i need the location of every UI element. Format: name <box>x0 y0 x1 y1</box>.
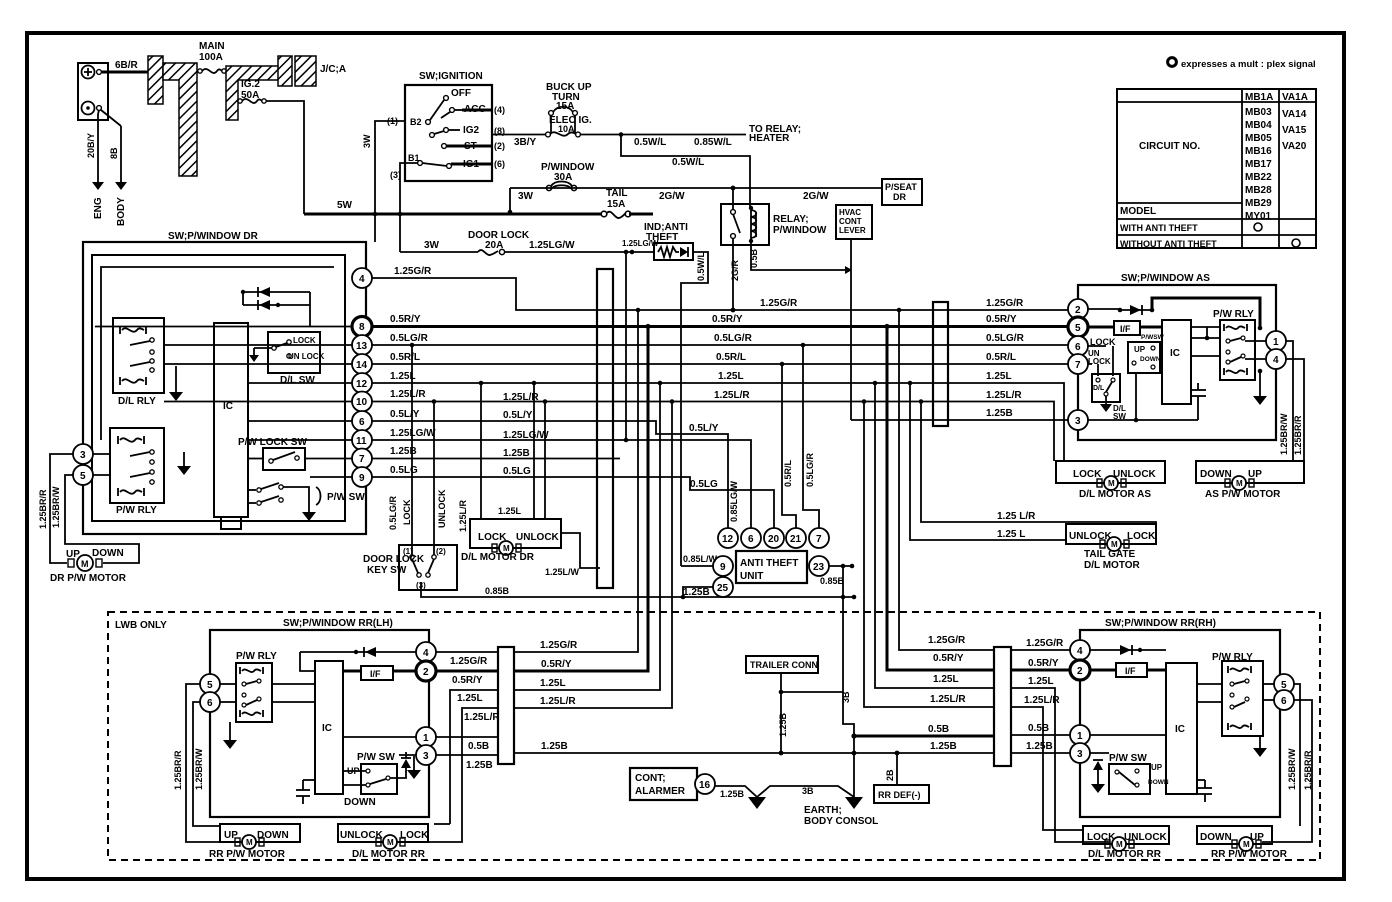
IG1 contact and B1 <box>418 161 423 166</box>
wire trailer 1.25B drop <box>780 673 782 753</box>
svg-text:UNLOCK: UNLOCK <box>340 830 384 841</box>
switch D/L SW <box>249 332 325 386</box>
motor RR P/W MOTOR (LH) <box>209 824 300 860</box>
svg-text:THEFT: THEFT <box>646 232 678 243</box>
svg-text:4: 4 <box>359 274 365 285</box>
P/W RLY LH <box>236 651 277 722</box>
wires to key switch <box>411 345 413 555</box>
fusible link block A (hatched) <box>148 56 163 104</box>
motor D/L MOTOR RR (RH) <box>1083 826 1169 860</box>
svg-text:DOWN: DOWN <box>92 548 124 559</box>
svg-text:1.25 L/R: 1.25 L/R <box>997 511 1036 522</box>
motor RR P/W MOTOR (RH) <box>1197 826 1288 860</box>
svg-text:1.25L/R: 1.25L/R <box>540 696 576 707</box>
wire RR P/W motor from LH pin6 <box>193 702 220 826</box>
svg-text:SW;P/WINDOW AS: SW;P/WINDOW AS <box>1121 273 1210 284</box>
fuse ELEC IG. 10A <box>546 115 592 137</box>
RH bus to pins wires <box>1011 649 1070 651</box>
svg-text:IC: IC <box>1170 348 1180 359</box>
svg-text:0.5W/L: 0.5W/L <box>634 137 666 148</box>
svg-text:DOWN: DOWN <box>344 797 376 808</box>
ST contact <box>442 144 447 149</box>
diode feed from pin2 <box>1088 309 1120 310</box>
svg-text:1.25L/R: 1.25L/R <box>390 389 426 400</box>
svg-text:5: 5 <box>207 680 213 691</box>
fusible link block B L-shape (hatched) <box>163 63 197 176</box>
wire RH pin6 to motor <box>1262 700 1312 842</box>
I/F LH <box>361 666 393 680</box>
svg-text:0.5W/L: 0.5W/L <box>672 157 704 168</box>
svg-text:1.25B: 1.25B <box>541 741 568 752</box>
IC LH <box>315 661 343 794</box>
svg-text:0.5LG: 0.5LG <box>390 465 418 476</box>
svg-text:1.25G/R: 1.25G/R <box>540 640 578 651</box>
drop tail gate 1.25L <box>910 383 1066 540</box>
svg-text:0.5B: 0.5B <box>749 248 759 268</box>
svg-text:0.5R/Y: 0.5R/Y <box>452 675 483 686</box>
wire 1.25BR/R from AS pin4 <box>1286 359 1304 461</box>
capacitor LH <box>302 780 304 790</box>
drop 1.25G/R to RR(RH) <box>899 310 994 650</box>
wire DR motor UP from pin 3 <box>50 454 73 563</box>
svg-text:P/W SW: P/W SW <box>1109 753 1147 764</box>
AS pins right <box>1266 331 1286 351</box>
svg-text:TAIL: TAIL <box>606 188 627 199</box>
svg-text:0.5LG/R: 0.5LG/R <box>805 452 815 487</box>
box HVAC CONT LEVER <box>836 205 872 239</box>
svg-text:0.5B: 0.5B <box>928 724 949 735</box>
svg-text:1.25B: 1.25B <box>986 408 1013 419</box>
svg-text:1.25 L: 1.25 L <box>997 529 1025 540</box>
svg-text:1.25G/R: 1.25G/R <box>928 635 966 646</box>
diode RH top <box>1090 649 1166 651</box>
svg-text:DR: DR <box>893 192 906 202</box>
svg-text:1.25G/R: 1.25G/R <box>760 298 798 309</box>
B2 contact and blade <box>426 120 431 125</box>
ground under RH relay <box>1259 736 1261 748</box>
svg-text:1: 1 <box>1273 337 1279 348</box>
wire 0.85L/W into pin 9 <box>681 565 713 567</box>
svg-text:D/L MOTOR RR: D/L MOTOR RR <box>1088 849 1162 860</box>
drop 1.25L to RR(RH) <box>875 383 994 688</box>
svg-text:0.5LG: 0.5LG <box>503 466 531 477</box>
svg-text:D/L MOTOR AS: D/L MOTOR AS <box>1079 489 1151 500</box>
RH pins <box>1070 640 1090 660</box>
RR(LH) pins <box>200 674 220 694</box>
box TRAILER CONN <box>746 656 818 673</box>
svg-text:UP: UP <box>1151 763 1163 772</box>
svg-text:expresses a mult : plex signal: expresses a mult : plex signal <box>1181 59 1316 70</box>
svg-text:M: M <box>1116 840 1123 849</box>
internal row wires <box>95 326 352 328</box>
motor TAIL GATE D/L MOTOR <box>1066 524 1156 571</box>
wire 0.5LG pin9 <box>372 477 774 528</box>
svg-text:5: 5 <box>80 471 86 482</box>
svg-text:UNLOCK: UNLOCK <box>516 532 560 543</box>
wire 0.5L/Y pin6 <box>372 421 728 528</box>
B1 wire to (3) <box>400 163 418 252</box>
svg-text:0.85W/L: 0.85W/L <box>694 137 732 148</box>
wire 0.5LG/R pin13 <box>372 344 1068 346</box>
wire 1.25LG/W drop to circle 11 row <box>625 252 627 440</box>
svg-text:1.25G/R: 1.25G/R <box>450 656 488 667</box>
ACC contact <box>450 108 455 113</box>
wire 0.5B relay coil to HVAC trunk <box>751 241 845 270</box>
svg-text:LOCK: LOCK <box>402 499 412 525</box>
svg-text:2G/W: 2G/W <box>659 191 685 202</box>
svg-text:11: 11 <box>356 436 367 447</box>
svg-text:MB04: MB04 <box>1245 120 1272 131</box>
svg-text:P/W RLY: P/W RLY <box>116 505 157 516</box>
svg-text:I/F: I/F <box>1125 666 1136 676</box>
svg-text:0.5LG/R: 0.5LG/R <box>714 333 753 344</box>
svg-text:M: M <box>246 838 253 847</box>
svg-text:6: 6 <box>359 417 365 428</box>
svg-text:0.85B: 0.85B <box>820 576 845 586</box>
IC RH <box>1166 663 1197 794</box>
svg-text:M: M <box>1243 840 1250 849</box>
svg-text:1.25B: 1.25B <box>466 760 493 771</box>
LH wires to bus <box>436 651 498 653</box>
svg-text:1.25BR/W: 1.25BR/W <box>194 748 204 790</box>
svg-text:ANTI THEFT: ANTI THEFT <box>740 558 798 569</box>
svg-text:1.25B: 1.25B <box>1026 741 1053 752</box>
svg-text:12: 12 <box>722 534 734 545</box>
drop 1.25L/R to RR(LH) <box>514 402 672 709</box>
svg-text:MB28: MB28 <box>1245 185 1272 196</box>
AS internals <box>1088 298 1267 422</box>
box CONT ALARMER <box>630 768 715 800</box>
drop 0.5R/Y to RR(LH) <box>514 327 648 672</box>
svg-text:1.25B: 1.25B <box>683 587 710 598</box>
svg-text:1: 1 <box>1077 731 1083 742</box>
svg-text:IG.2: IG.2 <box>241 79 260 90</box>
svg-text:D/L RLY: D/L RLY <box>118 396 156 407</box>
svg-text:1.25B: 1.25B <box>390 446 417 457</box>
svg-text:9: 9 <box>359 473 365 484</box>
wire 6B/R battery to J/C <box>102 71 150 74</box>
wire 2B drop to RR DEF <box>896 753 898 785</box>
wire 1.25L pin12 <box>372 382 948 384</box>
svg-text:MB17: MB17 <box>1245 159 1272 170</box>
P/W SW LH <box>343 752 397 808</box>
svg-text:WITHOUT ANTI THEFT: WITHOUT ANTI THEFT <box>1120 239 1217 249</box>
wire 0.5B run to RH bus <box>854 735 994 738</box>
svg-text:(2): (2) <box>436 547 446 556</box>
svg-text:0.5R/Y: 0.5R/Y <box>390 314 421 325</box>
relay P/W RLY <box>110 428 164 516</box>
svg-text:P/W RLY: P/W RLY <box>236 651 277 662</box>
svg-text:P/SEAT: P/SEAT <box>885 182 917 192</box>
svg-text:RR P/W MOTOR: RR P/W MOTOR <box>209 849 286 860</box>
svg-text:0.5R/L: 0.5R/L <box>716 352 746 363</box>
fusible link block C (hatched) <box>226 66 281 120</box>
fuse DOOR LOCK 20A <box>468 230 530 255</box>
svg-text:M: M <box>387 838 394 847</box>
svg-text:0.5LG: 0.5LG <box>690 479 718 490</box>
relay connections <box>1191 337 1220 339</box>
svg-text:10: 10 <box>356 397 368 408</box>
svg-text:3: 3 <box>1077 749 1083 760</box>
svg-text:DOWN: DOWN <box>257 830 289 841</box>
svg-text:IC: IC <box>223 401 233 412</box>
circuit number table <box>1117 89 1316 249</box>
svg-text:RR P/W MOTOR: RR P/W MOTOR <box>1211 849 1288 860</box>
bus connector bar left <box>597 269 613 588</box>
svg-text:1.25L: 1.25L <box>718 371 744 382</box>
misc internal wires <box>1092 345 1106 347</box>
wire 0.5R/L drop to anti theft 21 <box>782 364 796 528</box>
svg-text:DOOR LOCK: DOOR LOCK <box>363 554 425 565</box>
svg-text:D/L SW: D/L SW <box>280 375 315 386</box>
svg-text:RELAY;: RELAY; <box>773 214 809 225</box>
svg-text:1.25BR/W: 1.25BR/W <box>51 486 61 528</box>
svg-text:1.25L/R: 1.25L/R <box>464 712 500 723</box>
svg-text:0.5R/L: 0.5R/L <box>390 352 420 363</box>
svg-text:2: 2 <box>1075 305 1081 316</box>
svg-text:2G/R: 2G/R <box>730 259 740 281</box>
wire 0.5W/L branch to relay p/window <box>621 135 750 208</box>
svg-text:LOCK: LOCK <box>1127 531 1156 542</box>
svg-text:1.25L: 1.25L <box>498 506 522 516</box>
svg-text:OFF: OFF <box>451 88 471 99</box>
motor AS P/W MOTOR <box>1196 461 1304 500</box>
svg-text:EARTH;: EARTH; <box>804 805 842 816</box>
svg-text:DOWN: DOWN <box>1140 356 1161 363</box>
svg-text:1.25L: 1.25L <box>390 371 416 382</box>
svg-text:5: 5 <box>1075 323 1081 334</box>
fuse MAIN 100A <box>198 41 226 73</box>
svg-text:P/WINDOW: P/WINDOW <box>773 225 827 236</box>
svg-text:3B/Y: 3B/Y <box>514 137 537 148</box>
wire pin 23 to ground trunk <box>829 565 854 567</box>
svg-text:WITH ANTI THEFT: WITH ANTI THEFT <box>1120 223 1198 233</box>
svg-text:HVAC: HVAC <box>839 208 861 217</box>
svg-text:0.5R/Y: 0.5R/Y <box>986 314 1017 325</box>
ground under LH relay <box>229 722 231 740</box>
svg-text:MB16: MB16 <box>1245 146 1272 157</box>
svg-text:20: 20 <box>768 534 780 545</box>
wire 1.25B long bottom run <box>514 752 994 754</box>
svg-text:VA1A: VA1A <box>1282 92 1308 103</box>
RH internal wires <box>1197 683 1222 685</box>
svg-text:UP: UP <box>224 830 238 841</box>
svg-text:0.85L/W: 0.85L/W <box>683 554 718 564</box>
svg-text:MB03: MB03 <box>1245 107 1272 118</box>
svg-text:1.25LG/W: 1.25LG/W <box>529 240 575 251</box>
ground trunk 3B <box>843 566 854 798</box>
svg-text:M: M <box>1236 479 1243 488</box>
svg-text:UP: UP <box>1134 345 1146 354</box>
svg-text:CONT: CONT <box>839 217 862 226</box>
svg-text:MB1A: MB1A <box>1245 92 1273 103</box>
svg-text:UNIT: UNIT <box>740 571 763 582</box>
svg-text:0.5R/Y: 0.5R/Y <box>541 659 572 670</box>
svg-text:MAIN: MAIN <box>199 41 225 52</box>
svg-text:LOCK: LOCK <box>293 336 316 345</box>
svg-text:1.25G/R: 1.25G/R <box>986 298 1024 309</box>
wire 0.5W/L from IND down <box>681 252 708 566</box>
svg-text:1.25BR/R: 1.25BR/R <box>173 750 183 790</box>
svg-text:7: 7 <box>816 534 822 545</box>
svg-text:IG2: IG2 <box>463 125 480 136</box>
svg-text:HEATER: HEATER <box>749 133 790 144</box>
anti theft pins <box>718 528 738 548</box>
svg-text:KEY SW: KEY SW <box>367 565 407 576</box>
wire 5W horizontal run <box>304 213 400 215</box>
svg-text:CIRCUIT NO.: CIRCUIT NO. <box>1139 141 1200 152</box>
motor D/L MOTOR DR <box>461 519 561 563</box>
svg-text:D/L MOTOR: D/L MOTOR <box>1084 560 1141 571</box>
svg-text:UNLOCK: UNLOCK <box>1113 469 1157 480</box>
svg-text:1.25L/R: 1.25L/R <box>1024 695 1060 706</box>
svg-text:3: 3 <box>80 450 86 461</box>
connector box P/SEAT DR <box>882 179 922 205</box>
fuse IG.2 50A <box>238 79 266 103</box>
svg-text:M: M <box>81 559 89 569</box>
unit ANTI THEFT UNIT <box>736 551 807 583</box>
svg-text:3: 3 <box>1075 416 1081 427</box>
motor D/L MOTOR RR (LH) <box>338 824 429 860</box>
svg-text:23: 23 <box>813 562 825 573</box>
svg-text:5W: 5W <box>337 200 353 211</box>
D/L SW <box>1092 374 1120 402</box>
svg-text:6: 6 <box>748 534 754 545</box>
svg-text:7: 7 <box>359 454 365 465</box>
svg-text:0.5R/Y: 0.5R/Y <box>1028 658 1059 669</box>
ground wire ENG 20B/Y <box>86 110 104 219</box>
svg-text:1.25G/R: 1.25G/R <box>394 266 432 277</box>
I/F RH <box>1090 669 1116 672</box>
svg-text:0.5R/Y: 0.5R/Y <box>712 314 743 325</box>
svg-text:MY01: MY01 <box>1245 211 1272 222</box>
svg-text:P/WSW: P/WSW <box>1141 334 1165 341</box>
svg-text:(6): (6) <box>494 159 505 169</box>
bus connector bar right <box>933 302 948 426</box>
svg-text:RR DEF(-): RR DEF(-) <box>878 790 921 800</box>
svg-text:LEVER: LEVER <box>839 226 866 235</box>
svg-text:1.25L/R: 1.25L/R <box>930 694 966 705</box>
svg-text:DOWN: DOWN <box>1148 779 1169 786</box>
diode LH top <box>300 651 416 653</box>
svg-text:TAIL GATE: TAIL GATE <box>1084 549 1135 560</box>
svg-text:I/F: I/F <box>370 669 381 679</box>
svg-text:UN LOCK: UN LOCK <box>288 352 325 361</box>
wire 0.5W/L to relay heater <box>580 134 746 136</box>
svg-text:BODY CONSOL: BODY CONSOL <box>804 816 878 827</box>
svg-text:21: 21 <box>790 534 802 545</box>
svg-text:2: 2 <box>1077 666 1083 677</box>
svg-text:0.5LG/R: 0.5LG/R <box>390 333 429 344</box>
P/W SW RH <box>1109 753 1169 794</box>
wire 1.25G/R pin4 <box>372 278 1068 310</box>
svg-text:D/L MOTOR DR: D/L MOTOR DR <box>461 552 535 563</box>
svg-text:3W: 3W <box>518 191 534 202</box>
svg-text:(1): (1) <box>387 116 398 126</box>
switch DOOR LOCK KEY SW <box>363 545 457 590</box>
fuse TAIL 15A <box>601 188 631 218</box>
diode and ground right of P/W SW LH <box>390 768 406 778</box>
wire TAIL row (bold) <box>304 213 601 216</box>
svg-text:4: 4 <box>423 648 429 659</box>
IC <box>1162 320 1191 404</box>
svg-text:VA15: VA15 <box>1282 125 1307 136</box>
wire 1.25LG/W pin11 <box>372 440 751 528</box>
wire from IG.2 fuse down to 5W run <box>266 101 304 214</box>
wire 1.25L right segment to D/L motor AS <box>948 383 1064 461</box>
wire 1.25L/W from D/L motor DR <box>561 533 600 568</box>
svg-text:AS P/W MOTOR: AS P/W MOTOR <box>1205 489 1281 500</box>
wire riser DR box feed <box>374 214 376 242</box>
drop 1.25L/R to RR(RH) <box>864 402 994 708</box>
capacitor <box>1197 396 1199 420</box>
svg-text:13: 13 <box>356 341 368 352</box>
svg-text:MB05: MB05 <box>1245 133 1272 144</box>
svg-text:BODY: BODY <box>116 197 127 226</box>
wire door lock row 3W <box>400 251 478 253</box>
wire 1.25B pin7 <box>372 458 620 460</box>
svg-text:LWB ONLY: LWB ONLY <box>115 620 167 631</box>
svg-text:1.25B: 1.25B <box>778 712 788 737</box>
svg-text:DR P/W MOTOR: DR P/W MOTOR <box>50 573 127 584</box>
inner rail <box>101 267 334 440</box>
wire 0.85B from key switch <box>421 582 854 597</box>
svg-text:(4): (4) <box>494 105 505 115</box>
svg-text:UNLOCK: UNLOCK <box>437 489 447 528</box>
svg-text:6: 6 <box>1281 696 1287 707</box>
wire 2G/W row with P/WINDOW fuse <box>510 187 882 189</box>
svg-text:3: 3 <box>423 751 429 762</box>
svg-text:SW;P/WINDOW RR(LH): SW;P/WINDOW RR(LH) <box>283 618 393 629</box>
svg-text:1.25BR/R: 1.25BR/R <box>1303 750 1313 790</box>
junction 5W at x400 <box>398 212 403 217</box>
svg-text:MB22: MB22 <box>1245 172 1272 183</box>
svg-text:ALARMER: ALARMER <box>635 786 686 797</box>
wire RH pin5 to motor <box>1294 684 1300 826</box>
svg-text:IC: IC <box>322 723 332 734</box>
svg-text:16: 16 <box>699 780 711 791</box>
svg-text:1.25B: 1.25B <box>930 741 957 752</box>
capacitor RH <box>1204 780 1206 788</box>
svg-text:UNLOCK: UNLOCK <box>1069 531 1113 542</box>
svg-text:1.25L/W: 1.25L/W <box>545 567 580 577</box>
svg-text:M: M <box>1111 540 1118 549</box>
diode pair top <box>241 287 310 326</box>
wire pin 25 to 1.25B <box>683 587 713 597</box>
bus bar RR(RH) <box>994 647 1011 766</box>
IC block <box>214 323 248 529</box>
wire relay switch feed <box>732 188 734 209</box>
svg-text:0.5LG/R: 0.5LG/R <box>388 495 398 530</box>
svg-text:0.85B: 0.85B <box>485 586 510 596</box>
svg-text:1.25B: 1.25B <box>503 448 530 459</box>
svg-text:I/F: I/F <box>1120 324 1131 334</box>
drop 1.25G/R to RR(LH) <box>514 310 638 652</box>
wire 1.25LG/W door lock feed <box>505 251 654 253</box>
svg-text:1: 1 <box>423 733 429 744</box>
drop 1.25L to RR(LH) <box>514 383 660 690</box>
wire IG2 output 3B/Y <box>492 134 546 136</box>
svg-text:1.25B: 1.25B <box>720 789 745 799</box>
svg-text:1.25BR/R: 1.25BR/R <box>38 489 48 529</box>
svg-text:J/C;A: J/C;A <box>320 64 346 75</box>
svg-text:1.25G/R: 1.25G/R <box>1026 638 1064 649</box>
svg-text:6: 6 <box>1075 342 1081 353</box>
wires LH internal <box>343 670 361 673</box>
svg-text:6: 6 <box>207 698 213 709</box>
relay RELAY;P/WINDOW <box>721 204 827 245</box>
svg-text:15A: 15A <box>607 199 625 210</box>
